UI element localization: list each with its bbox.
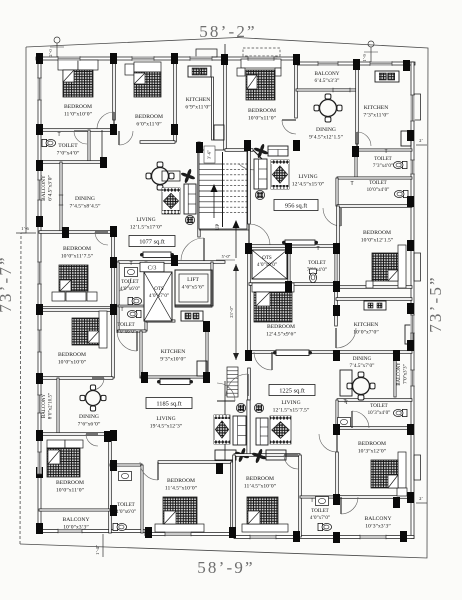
svg-text:1’-9: 1’-9 bbox=[362, 54, 367, 62]
svg-text:KITCHEN: KITCHEN bbox=[354, 322, 379, 328]
door bedroom TR bbox=[282, 120, 296, 134]
svg-text:DINING: DINING bbox=[75, 196, 95, 202]
column bbox=[221, 54, 228, 65]
svg-text:6’4.5”x3’0”: 6’4.5”x3’0” bbox=[48, 175, 54, 201]
door living TR bbox=[239, 150, 267, 170]
column bbox=[36, 124, 43, 135]
label balcony BL bbox=[42, 393, 54, 420]
svg-text:10’0”x11’0”: 10’0”x11’0” bbox=[56, 488, 85, 494]
svg-text:BALCONY: BALCONY bbox=[314, 71, 339, 77]
svg-text:11’0”x10’0”: 11’0”x10’0” bbox=[64, 112, 93, 118]
svg-text:9’4.5”x12’1.5”: 9’4.5”x12’1.5” bbox=[309, 135, 343, 141]
wall balcony C3 bottom bbox=[39, 231, 113, 234]
svg-text:19’4.5”x12’3”: 19’4.5”x12’3” bbox=[150, 424, 183, 430]
exterior wall top-left bbox=[36, 57, 298, 60]
label toilet BR1 bbox=[368, 404, 391, 416]
sofa living C3 bbox=[184, 184, 196, 214]
label toilet TR2 bbox=[367, 181, 390, 193]
column bbox=[229, 527, 236, 538]
column bbox=[407, 303, 414, 314]
svg-text:1077 sq.ft: 1077 sq.ft bbox=[139, 238, 165, 245]
svg-text:TOILET: TOILET bbox=[121, 280, 138, 285]
entry door BR bbox=[226, 374, 248, 396]
fan living BL bbox=[234, 447, 249, 462]
door bedroom8 BL bbox=[140, 462, 158, 480]
svg-text:1185 sq.ft: 1185 sq.ft bbox=[156, 400, 182, 407]
window bedroom2 top bbox=[132, 56, 154, 60]
column bbox=[245, 243, 252, 254]
label bedroom TR bbox=[248, 108, 277, 122]
label flat C3 bbox=[140, 262, 164, 272]
door bedroom2 bbox=[119, 131, 133, 145]
wall OTS/toilet TR top bbox=[249, 245, 336, 248]
svg-text:4’0”x6’0”: 4’0”x6’0” bbox=[116, 510, 136, 515]
wall toilet TR divider bbox=[337, 177, 412, 179]
wall bedroom2 bottom bbox=[140, 141, 175, 144]
svg-text:TOILET: TOILET bbox=[117, 503, 134, 508]
WC toilet TR3 bbox=[309, 269, 316, 283]
entrance step bbox=[247, 59, 277, 63]
wall toilet C3 right bbox=[145, 262, 147, 331]
svg-text:7’3”x4’0”: 7’3”x4’0” bbox=[373, 164, 393, 169]
column bbox=[141, 372, 148, 383]
dim 5ft lobby bbox=[216, 254, 235, 260]
wall toilet BR1 left bbox=[336, 400, 338, 428]
door bedroom6 BL bbox=[86, 434, 98, 446]
svg-text:TOILET: TOILET bbox=[370, 404, 387, 409]
label living C3 bbox=[130, 217, 163, 231]
column bbox=[36, 467, 43, 478]
svg-text:BEDROOM: BEDROOM bbox=[246, 476, 274, 482]
svg-text:10’0”x11’7.5”: 10’0”x11’7.5” bbox=[61, 254, 94, 260]
window bedroom1 left bbox=[37, 78, 41, 100]
svg-text:2’-0: 2’-0 bbox=[48, 49, 53, 57]
wall bedroom5 right bbox=[335, 284, 338, 326]
column bbox=[285, 243, 292, 254]
svg-text:10’3”x3’3”: 10’3”x3’3” bbox=[365, 524, 391, 530]
column bbox=[407, 130, 414, 141]
label bedroom9 BR bbox=[358, 441, 387, 455]
label living BR bbox=[273, 400, 310, 414]
door bedroom1 bbox=[97, 112, 114, 129]
svg-text:OTS: OTS bbox=[154, 287, 164, 292]
wall toilet BR1 bottom bbox=[337, 427, 412, 430]
dining table BL bbox=[80, 385, 106, 411]
column bbox=[203, 321, 210, 332]
WC toilet2 C3 bbox=[128, 297, 142, 304]
bed bedroom3 C3 bbox=[52, 265, 97, 301]
door bedroom5 b bbox=[254, 352, 272, 370]
opening balcony TR bottom bbox=[333, 88, 350, 92]
sideboard living TR bbox=[282, 240, 318, 245]
wall OTS bottom bbox=[146, 320, 175, 322]
bed bedroom4 TR bbox=[366, 245, 406, 288]
column bbox=[333, 494, 340, 505]
door bedroom3 C3 bbox=[95, 232, 108, 245]
wall bedroom4 top bbox=[337, 205, 412, 208]
column bbox=[171, 255, 178, 266]
pouffe living C3 bbox=[185, 215, 194, 224]
wall kitchen BL left bbox=[140, 331, 142, 378]
window bedroom3 left bbox=[37, 262, 41, 284]
wall kitchen BL bottom bbox=[141, 376, 208, 378]
svg-text:10’0”x7’0”: 10’0”x7’0” bbox=[353, 330, 379, 336]
window bay right 3 bbox=[414, 455, 421, 480]
OTS shaft C3 bbox=[144, 272, 172, 321]
label bedroom3 C3 bbox=[61, 246, 94, 260]
label balcony BL2 bbox=[62, 517, 89, 531]
wall bedroom4 bottom bbox=[338, 286, 412, 289]
svg-text:BEDROOM: BEDROOM bbox=[64, 104, 92, 110]
wall bedroom7 top bbox=[39, 309, 113, 312]
wall toilet BL top bbox=[110, 464, 142, 466]
door bedroom10 BR bbox=[284, 455, 298, 469]
door balcony BR2 bbox=[341, 497, 358, 514]
svg-text:BEDROOM: BEDROOM bbox=[267, 324, 295, 330]
bed bedroom10 BR bbox=[242, 497, 288, 532]
label dining C3 bbox=[69, 196, 101, 210]
column bbox=[100, 157, 107, 168]
wall toilet TR1 left bbox=[355, 150, 357, 178]
column bbox=[196, 142, 203, 153]
label bedroom10 BR bbox=[244, 476, 277, 490]
svg-text:10’0”x11’0”: 10’0”x11’0” bbox=[248, 116, 277, 122]
wall corridor right upper bbox=[248, 145, 251, 224]
svg-text:73’-5”: 73’-5” bbox=[426, 275, 445, 333]
label toilet BR2 bbox=[310, 509, 330, 521]
wall corridor right mid bbox=[248, 246, 251, 352]
column bbox=[407, 492, 414, 503]
svg-text:73’-7”: 73’-7” bbox=[0, 255, 15, 313]
svg-text:4’0”x7’0”: 4’0”x7’0” bbox=[149, 294, 169, 299]
svg-text:11’4.5”x10’0”: 11’4.5”x10’0” bbox=[165, 486, 198, 492]
exterior wall left bbox=[38, 57, 41, 533]
wall bedroom8 top bbox=[158, 461, 232, 464]
dim marker top-right bbox=[362, 41, 378, 62]
door toilet3 BL bbox=[117, 331, 137, 351]
column bbox=[110, 430, 117, 441]
column bbox=[36, 53, 43, 64]
wall bedroom5 bottom bbox=[249, 351, 336, 354]
dim 1ft4 bottom bbox=[95, 534, 103, 557]
svg-text:BEDROOM: BEDROOM bbox=[135, 114, 163, 120]
column bbox=[36, 304, 43, 315]
label bedroom5 TR bbox=[266, 324, 296, 338]
label toilet1 C3 bbox=[57, 143, 80, 157]
fan living C3 bbox=[180, 168, 195, 183]
label area 1225 bbox=[269, 385, 315, 396]
fridge kitchen BR bbox=[405, 325, 413, 344]
column bbox=[352, 146, 359, 157]
wall bedroom5 top bbox=[249, 283, 336, 286]
svg-text:3’-6”: 3’-6” bbox=[207, 150, 212, 159]
window balcony C3 inner bbox=[59, 195, 63, 205]
corridor dimension line bbox=[235, 264, 237, 360]
svg-text:10’3”x4’0”: 10’3”x4’0” bbox=[368, 411, 391, 416]
label kitchen TR bbox=[363, 105, 389, 119]
svg-text:TOILET: TOILET bbox=[311, 509, 328, 514]
label OTS TR bbox=[257, 256, 277, 268]
column bbox=[36, 523, 43, 534]
wall balcony C3 inner bbox=[60, 162, 62, 232]
column bbox=[293, 54, 300, 65]
wall balcony BR2 top bbox=[337, 496, 412, 499]
label area 1185 bbox=[146, 398, 192, 409]
svg-text:TOILET: TOILET bbox=[374, 157, 391, 162]
bed bedroom8 BL bbox=[155, 497, 204, 532]
svg-text:TOILET: TOILET bbox=[58, 143, 78, 149]
svg-text:8’0”x2’10.5”: 8’0”x2’10.5” bbox=[49, 393, 54, 420]
wall living C3 left bbox=[112, 232, 115, 310]
label toilet3 C3 bbox=[116, 323, 136, 335]
label bedroom1 C3 bbox=[64, 104, 93, 118]
column bbox=[110, 257, 117, 268]
column bbox=[110, 124, 117, 135]
bed bedroom5 TR bbox=[252, 283, 294, 322]
svg-text:BALCONY: BALCONY bbox=[42, 394, 47, 419]
svg-text:4’0”x6’0”: 4’0”x6’0” bbox=[116, 330, 136, 335]
svg-text:9’3”x10’0”: 9’3”x10’0” bbox=[160, 357, 186, 363]
wall dining BL bottom bbox=[39, 433, 113, 436]
svg-text:4’0”x6’0”: 4’0”x6’0” bbox=[120, 287, 140, 292]
svg-text:DINING: DINING bbox=[316, 127, 336, 133]
svg-text:DINING: DINING bbox=[79, 414, 99, 420]
carpet living BR bbox=[270, 416, 291, 444]
door bedroom4 TR bbox=[323, 208, 341, 226]
wall bedroom7 bottom bbox=[39, 377, 113, 380]
column bbox=[36, 373, 43, 384]
door toilet2 C3 bbox=[118, 278, 131, 291]
svg-text:7’0”x3’3”: 7’0”x3’3” bbox=[404, 364, 409, 383]
wall bedroomTR/balcony bbox=[295, 62, 298, 118]
pouffe living BL bbox=[236, 403, 245, 412]
bed bedroom1 bbox=[58, 60, 98, 97]
window bedroom7 left bbox=[37, 330, 41, 352]
fridge kitchen TR bbox=[401, 131, 411, 146]
window balcony BL left bbox=[37, 395, 41, 413]
window kitchen BR right bbox=[410, 315, 414, 333]
wall bedroom4 left bbox=[337, 206, 340, 287]
wall living divider lower bbox=[247, 400, 250, 455]
column bbox=[285, 281, 292, 292]
WC toilet1 C3 bbox=[42, 139, 56, 146]
column bbox=[104, 431, 111, 442]
wall toilet TR2 left bbox=[336, 178, 338, 206]
window balcony C3 left bbox=[37, 180, 41, 200]
label toilet TR3 bbox=[307, 261, 327, 273]
WC toilet TR2 bbox=[394, 190, 408, 197]
sideboard living BL bbox=[157, 379, 193, 385]
dim 2ft right upper bbox=[416, 138, 427, 145]
svg-text:LIVING: LIVING bbox=[281, 400, 300, 406]
wall kitchen BR top bbox=[336, 298, 412, 301]
label OTS C3 bbox=[149, 287, 169, 299]
svg-text:BALCONY: BALCONY bbox=[397, 362, 402, 386]
svg-text:LIVING: LIVING bbox=[156, 416, 175, 422]
wall toilet BR2 top bbox=[300, 496, 337, 498]
wall bedroom8 right bbox=[231, 462, 234, 534]
wall vestibule C3 bbox=[101, 130, 103, 162]
bed bedroom7 BL bbox=[72, 311, 107, 348]
window kitchen TR right bbox=[410, 95, 414, 121]
bed bedroom TR bbox=[237, 59, 281, 100]
WC toilet TR1 bbox=[393, 161, 407, 168]
svg-text:2’: 2’ bbox=[419, 138, 423, 143]
label bedroom7 BL bbox=[58, 352, 87, 366]
svg-text:10’0”x10’0”: 10’0”x10’0” bbox=[58, 360, 87, 366]
svg-text:2’: 2’ bbox=[419, 496, 423, 501]
tv table living BR bbox=[266, 450, 286, 460]
svg-text:LIVING: LIVING bbox=[298, 174, 317, 180]
svg-text:6’0”x11’0”: 6’0”x11’0” bbox=[136, 122, 162, 128]
basin toilet BR1 bbox=[338, 418, 351, 427]
door toilet BR1 bbox=[352, 411, 369, 428]
stair landing edge bbox=[199, 229, 249, 231]
svg-text:KITCHEN: KITCHEN bbox=[186, 97, 211, 103]
window bedroom10 bottom bbox=[250, 535, 276, 539]
svg-text:12’1.5”x17’0”: 12’1.5”x17’0” bbox=[130, 225, 163, 231]
svg-text:KITCHEN: KITCHEN bbox=[364, 105, 389, 111]
fan living TR bbox=[253, 143, 268, 158]
column bbox=[36, 160, 43, 171]
column bbox=[203, 372, 210, 383]
basin toilet BR2 bbox=[316, 497, 329, 506]
staircase bbox=[199, 146, 247, 258]
sofa living BL bbox=[233, 416, 246, 445]
stove kitchen BR bbox=[364, 301, 386, 310]
wall balcony TR bottom bbox=[296, 89, 358, 91]
svg-text:1’-6: 1’-6 bbox=[21, 226, 29, 231]
svg-text:6’4.5”x3’3”: 6’4.5”x3’3” bbox=[315, 78, 341, 84]
dining table BR bbox=[347, 372, 375, 400]
label toilet BL bbox=[116, 503, 136, 515]
svg-text:4’0”x9’0”: 4’0”x9’0” bbox=[257, 263, 277, 268]
door dining BL bbox=[92, 378, 104, 390]
wall lift right bbox=[211, 262, 213, 306]
svg-text:12’4.5”x9’6”: 12’4.5”x9’6” bbox=[266, 332, 296, 338]
WC toilet BR2 bbox=[318, 523, 332, 530]
door kitchen TR bbox=[357, 132, 371, 146]
svg-text:11’4.5”x10’0”: 11’4.5”x10’0” bbox=[244, 484, 277, 490]
svg-text:TOILET: TOILET bbox=[308, 261, 325, 266]
column bbox=[110, 505, 117, 516]
svg-text:10’3”x12’0”: 10’3”x12’0” bbox=[358, 449, 387, 455]
wall bedroom1/bedroom2 bbox=[113, 57, 116, 120]
column bbox=[333, 281, 340, 292]
svg-text:BALCONY: BALCONY bbox=[41, 175, 47, 201]
label toilet2 C3 bbox=[120, 280, 140, 292]
sofa living TR bbox=[254, 159, 267, 189]
svg-text:58’-2”: 58’-2” bbox=[199, 22, 257, 41]
wall corridor right lower bbox=[248, 368, 251, 400]
window bedroom1 top bbox=[58, 56, 80, 60]
exterior wall bottom-left bbox=[38, 530, 145, 533]
sofa living BR bbox=[256, 418, 268, 445]
wall toilet BL right bbox=[141, 465, 143, 533]
sideboard living C3 bbox=[140, 252, 174, 258]
column bbox=[407, 196, 414, 207]
wall kitchen C3 right bbox=[212, 77, 214, 140]
wall toilet BR2 left bbox=[299, 455, 302, 537]
column bbox=[333, 350, 340, 361]
column bbox=[110, 53, 117, 64]
wall toilet C3 left bbox=[117, 262, 119, 331]
dim marker 2ft0 top-left bbox=[48, 37, 64, 57]
svg-text:BEDROOM: BEDROOM bbox=[167, 478, 195, 484]
label bedroom2 C3 bbox=[135, 114, 163, 128]
label area 1077 bbox=[129, 236, 175, 247]
column bbox=[293, 140, 300, 151]
entrance canopy left bbox=[196, 49, 217, 57]
wall balcony BL2 top bbox=[39, 509, 110, 511]
door bedroom5 TR bbox=[336, 328, 356, 348]
wall kitchen BL right bbox=[206, 331, 208, 377]
wall kitchenC3/bedroomTR bbox=[224, 57, 227, 150]
svg-text:10’0”x4’0”: 10’0”x4’0” bbox=[367, 188, 390, 193]
wall toilet BR1 top bbox=[337, 399, 412, 402]
basin toilet2 C3 bbox=[125, 268, 138, 277]
entry door C3 bbox=[181, 238, 204, 261]
window bay right 2 bbox=[414, 253, 421, 281]
label area 956 bbox=[274, 200, 318, 211]
label bedroom4 TR bbox=[361, 230, 394, 244]
column bbox=[353, 59, 360, 70]
label kitchen BL bbox=[160, 349, 186, 363]
WC toilet BR1 bbox=[393, 409, 407, 416]
fan living BR bbox=[251, 448, 266, 463]
tv unit living BL bbox=[215, 450, 236, 460]
column bbox=[400, 531, 407, 542]
svg-text:6’9”x11’0”: 6’9”x11’0” bbox=[185, 105, 211, 111]
exterior wall bottom-right bbox=[234, 536, 414, 539]
svg-text:7’3”x11’0”: 7’3”x11’0” bbox=[363, 113, 389, 119]
wall lift bottom bbox=[175, 305, 212, 307]
column bbox=[245, 350, 252, 361]
column bbox=[110, 304, 117, 315]
wall toilet TR1 top bbox=[356, 149, 412, 151]
column bbox=[36, 430, 43, 441]
svg-text:10’0”x12’1.5”: 10’0”x12’1.5” bbox=[361, 238, 394, 244]
dim 2ft right lower bbox=[416, 496, 427, 503]
wall toilet TR3 right bbox=[335, 246, 337, 284]
svg-text:7’6”x6’0”: 7’6”x6’0” bbox=[78, 422, 101, 428]
label balcony C3 bbox=[41, 175, 54, 201]
column bbox=[403, 60, 410, 71]
svg-text:BEDROOM: BEDROOM bbox=[248, 108, 276, 114]
entry door TR bbox=[249, 224, 270, 245]
carpet living BL bbox=[214, 415, 230, 444]
column bbox=[62, 227, 69, 238]
window bedroom6 left bbox=[37, 452, 41, 474]
window balcony BL2 bottom bbox=[58, 529, 82, 533]
wall toilet C3 bottom bbox=[118, 330, 146, 332]
entry door BL bbox=[217, 383, 235, 401]
label balcony BR2 bbox=[364, 516, 391, 530]
label living TR bbox=[292, 174, 325, 188]
column bbox=[333, 243, 340, 254]
label toilet TR1 bbox=[373, 157, 393, 169]
svg-text:TOILET: TOILET bbox=[369, 181, 386, 186]
svg-text:5’-0”: 5’-0” bbox=[222, 254, 231, 259]
column bbox=[171, 53, 178, 64]
label living BL bbox=[150, 416, 183, 430]
door bedroom9 BR bbox=[319, 434, 337, 452]
svg-text:BEDROOM: BEDROOM bbox=[358, 441, 386, 447]
exterior wall right bbox=[411, 62, 414, 539]
sideboard living BR bbox=[273, 350, 312, 356]
column bbox=[393, 350, 400, 361]
wall bedroom3 bottom bbox=[39, 307, 113, 310]
